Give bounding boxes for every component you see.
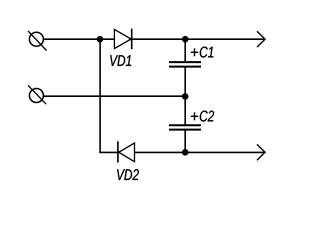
- diode VD2: [118, 141, 135, 162]
- wire: C2 bottom plate down to node D: [184, 130, 186, 152]
- wire: C1 bottom plate down to node C: [184, 67, 186, 96]
- wire: VD1 cathode to top output arrow: [132, 38, 265, 40]
- terminal XS2 (bottom input): [28, 85, 46, 104]
- capacitor C2: [169, 125, 201, 129]
- wire: VD2 anode to bottom output arrow: [135, 151, 265, 153]
- wire: node C down to C2 top plate: [184, 96, 186, 124]
- terminal XS1 (top input): [28, 31, 47, 51]
- label VD2: [117, 169, 139, 180]
- label VD1: [110, 55, 131, 66]
- wire: terminal XS1 to VD1 anode: [44, 38, 115, 40]
- wire: node B down to C1 top plate: [184, 39, 186, 61]
- node C junction dot (middle wire to C1/C2): [182, 93, 189, 100]
- top output arrow: [257, 31, 265, 47]
- wire: terminal XS2 to node C (crosses vertical branch without junction): [44, 95, 186, 97]
- capacitor C1: [169, 62, 201, 67]
- label +C1: [191, 48, 199, 56]
- bottom output arrow: [257, 144, 265, 160]
- node D junction dot (bottom wire to C2): [182, 149, 189, 156]
- wire: vertical branch from node A down to VD2 cathode row: [100, 40, 118, 152]
- node B junction dot (top wire to C1): [182, 36, 189, 43]
- diode VD1: [114, 29, 132, 50]
- label +C2: [191, 112, 199, 120]
- node A junction dot (top wire to vertical branch): [97, 36, 104, 43]
